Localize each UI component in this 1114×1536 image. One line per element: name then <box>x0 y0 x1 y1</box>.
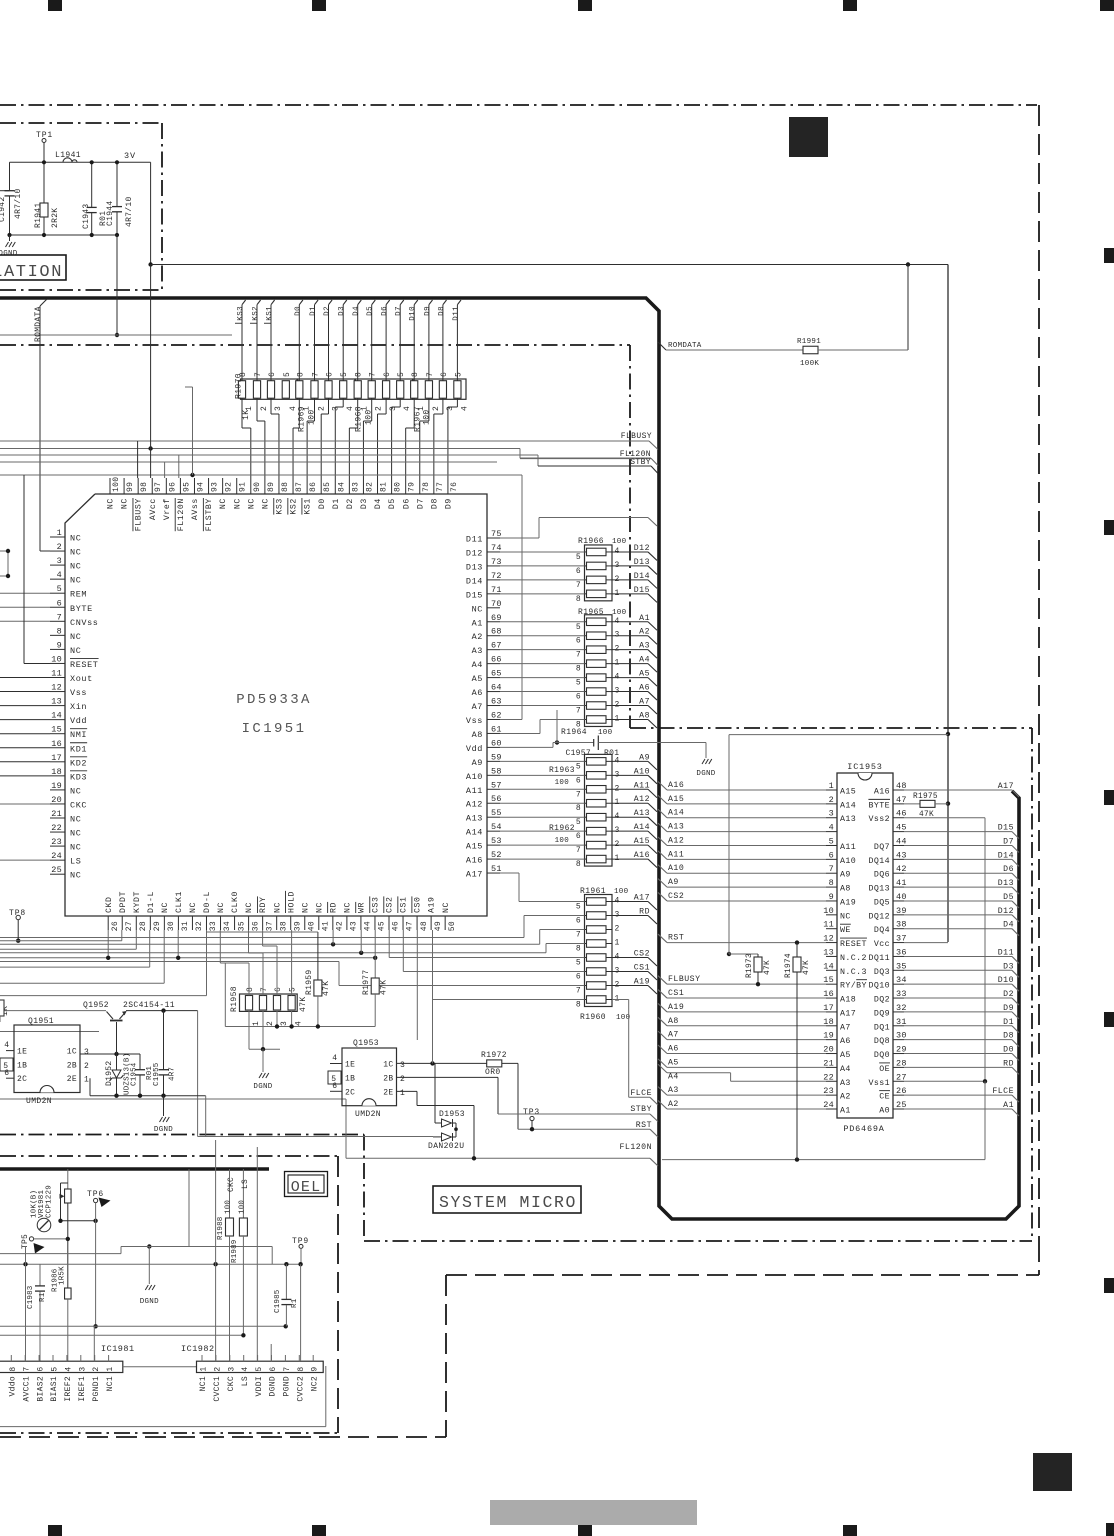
svg-text:A0: A0 <box>879 1107 890 1116</box>
svg-text:A1: A1 <box>472 618 483 628</box>
svg-text:LS: LS <box>70 857 81 867</box>
svg-text:89: 89 <box>267 482 276 492</box>
svg-text:2E: 2E <box>67 1075 77 1084</box>
svg-text:8: 8 <box>57 626 62 636</box>
svg-text:Vdd: Vdd <box>70 716 87 726</box>
svg-text:100: 100 <box>555 837 570 845</box>
svg-text:D3: D3 <box>360 498 369 509</box>
svg-text:2E: 2E <box>383 1088 393 1097</box>
svg-text:1C: 1C <box>383 1061 393 1070</box>
svg-text:5: 5 <box>51 1366 60 1371</box>
svg-text:17: 17 <box>51 753 62 763</box>
svg-text:95: 95 <box>182 482 191 492</box>
svg-text:D0: D0 <box>318 498 327 509</box>
svg-text:DQ6: DQ6 <box>874 871 890 880</box>
svg-text:REM: REM <box>70 590 87 600</box>
svg-text:D4: D4 <box>374 498 383 509</box>
svg-text:6: 6 <box>576 832 581 841</box>
svg-text:2: 2 <box>260 406 269 411</box>
svg-text:23: 23 <box>51 837 62 847</box>
svg-text:6: 6 <box>274 987 283 992</box>
svg-text:CS2: CS2 <box>668 892 684 901</box>
svg-text:D9: D9 <box>445 498 454 509</box>
svg-text:Vcc: Vcc <box>874 940 890 949</box>
svg-text:D0: D0 <box>294 306 302 316</box>
svg-text:2B: 2B <box>383 1074 393 1083</box>
svg-text:22: 22 <box>51 823 62 833</box>
svg-text:A9: A9 <box>639 753 650 762</box>
svg-text:27: 27 <box>125 921 134 931</box>
svg-text:4: 4 <box>829 823 834 833</box>
svg-text:4R7/10: 4R7/10 <box>125 196 134 227</box>
svg-text:42: 42 <box>336 921 345 931</box>
svg-text:D1: D1 <box>1003 1018 1014 1027</box>
svg-text:96: 96 <box>168 482 177 492</box>
svg-text:1: 1 <box>829 781 834 791</box>
svg-text:DQ7: DQ7 <box>874 843 890 852</box>
svg-text:NC: NC <box>840 912 851 921</box>
svg-text:CLK1: CLK1 <box>175 891 184 913</box>
svg-text:7: 7 <box>576 846 581 855</box>
svg-text:D15: D15 <box>466 590 483 600</box>
svg-text:PGND: PGND <box>283 1376 292 1396</box>
svg-text:5: 5 <box>289 987 298 992</box>
svg-text:100: 100 <box>598 729 613 737</box>
svg-text:82: 82 <box>365 482 374 492</box>
svg-text:R1969: R1969 <box>298 406 307 432</box>
svg-text:DQ14: DQ14 <box>868 857 890 866</box>
svg-text:1E: 1E <box>345 1061 355 1070</box>
svg-text:A13: A13 <box>840 815 856 824</box>
svg-text:A14: A14 <box>840 801 856 810</box>
svg-text:CS1: CS1 <box>400 896 409 913</box>
svg-text:RST: RST <box>636 1121 652 1130</box>
svg-text:TP3: TP3 <box>523 1108 540 1117</box>
svg-text:D3: D3 <box>338 306 346 316</box>
svg-text:D9: D9 <box>1003 1004 1014 1013</box>
svg-text:D13: D13 <box>634 558 650 567</box>
svg-text:DAN202U: DAN202U <box>428 1142 464 1151</box>
svg-text:A16: A16 <box>466 856 483 866</box>
svg-text:CS1: CS1 <box>634 964 650 973</box>
svg-text:CKC: CKC <box>70 800 87 810</box>
svg-text:A6: A6 <box>840 1037 851 1046</box>
svg-text:21: 21 <box>51 809 62 819</box>
svg-text:A11: A11 <box>466 786 483 796</box>
svg-text:FLBUSY: FLBUSY <box>668 975 700 984</box>
svg-text:36: 36 <box>251 921 260 931</box>
svg-text:R1960: R1960 <box>580 1013 606 1022</box>
svg-text:5: 5 <box>454 372 463 377</box>
svg-text:D7: D7 <box>416 498 425 509</box>
svg-text:BIAS1: BIAS1 <box>50 1376 59 1402</box>
svg-text:RESET: RESET <box>70 660 99 670</box>
svg-text:A11: A11 <box>668 850 684 859</box>
svg-text:DGND: DGND <box>154 1126 173 1134</box>
svg-text:A4: A4 <box>639 656 650 665</box>
svg-text:N.C.3: N.C.3 <box>840 968 867 977</box>
svg-text:5: 5 <box>57 584 62 594</box>
svg-text:6: 6 <box>576 973 581 982</box>
svg-text:8: 8 <box>411 372 420 377</box>
svg-text:5: 5 <box>576 903 581 912</box>
svg-text:100: 100 <box>365 409 374 425</box>
svg-text:DPDT: DPDT <box>119 891 128 913</box>
svg-text:1K: 1K <box>242 410 251 420</box>
svg-text:4: 4 <box>460 406 469 411</box>
svg-text:NC: NC <box>107 498 116 509</box>
svg-text:UMD2N: UMD2N <box>26 1097 52 1106</box>
svg-text:84: 84 <box>337 482 346 492</box>
svg-text:ROMDATA: ROMDATA <box>34 306 43 342</box>
svg-text:STBY: STBY <box>630 1105 652 1114</box>
svg-text:DGND: DGND <box>0 250 18 258</box>
svg-text:FLCE: FLCE <box>630 1089 652 1098</box>
svg-text:A4: A4 <box>840 1065 851 1074</box>
svg-text:A4: A4 <box>668 1072 679 1081</box>
svg-text:A16: A16 <box>634 851 650 860</box>
svg-text:5: 5 <box>397 372 406 377</box>
svg-text:4R7/10: 4R7/10 <box>14 188 23 219</box>
svg-text:A6: A6 <box>668 1045 679 1054</box>
svg-text:C1943: C1943 <box>82 203 91 229</box>
svg-text:80: 80 <box>394 482 403 492</box>
svg-text:A15: A15 <box>634 837 650 846</box>
svg-text:A12: A12 <box>668 836 684 845</box>
svg-text:A8: A8 <box>472 730 483 740</box>
svg-text:2: 2 <box>829 795 834 805</box>
svg-text:81: 81 <box>380 482 389 492</box>
svg-text:1: 1 <box>615 939 620 948</box>
svg-text:A6: A6 <box>472 688 483 698</box>
svg-text:43: 43 <box>350 921 359 931</box>
svg-text:A13: A13 <box>668 823 684 832</box>
svg-text:13: 13 <box>51 697 62 707</box>
svg-text:2R2K: 2R2K <box>51 208 60 228</box>
svg-text:A1: A1 <box>840 1107 851 1116</box>
svg-text:7: 7 <box>576 987 581 996</box>
svg-text:6: 6 <box>37 1366 46 1371</box>
svg-text:R1975: R1975 <box>913 793 938 801</box>
svg-text:FLSTBY: FLSTBY <box>205 498 214 531</box>
svg-text:D11: D11 <box>998 948 1014 957</box>
svg-text:A9: A9 <box>472 758 483 768</box>
svg-text:Vss: Vss <box>70 688 87 698</box>
svg-text:R1973: R1973 <box>746 953 754 978</box>
svg-text:3: 3 <box>280 1021 289 1026</box>
svg-text:14: 14 <box>823 961 834 971</box>
svg-text:A16: A16 <box>668 781 684 790</box>
svg-text:A3: A3 <box>639 642 650 651</box>
svg-text:100: 100 <box>238 1200 246 1214</box>
svg-text:85: 85 <box>323 482 332 492</box>
svg-text:NC: NC <box>343 902 352 913</box>
svg-text:A15: A15 <box>466 842 483 852</box>
svg-text:A15: A15 <box>668 795 684 804</box>
svg-text:88: 88 <box>281 482 290 492</box>
svg-text:D3: D3 <box>1003 962 1014 971</box>
svg-text:VDDI: VDDI <box>255 1376 264 1396</box>
svg-text:Vss1: Vss1 <box>868 1079 890 1088</box>
svg-text:R1972: R1972 <box>481 1051 507 1060</box>
svg-text:NC1: NC1 <box>106 1376 115 1391</box>
svg-text:6: 6 <box>440 372 449 377</box>
svg-text:10: 10 <box>823 906 834 916</box>
svg-text:1: 1 <box>84 1076 90 1085</box>
svg-text:WR: WR <box>358 902 367 913</box>
svg-text:DQ0: DQ0 <box>874 1051 890 1060</box>
svg-text:D6: D6 <box>402 498 411 509</box>
svg-text:A14: A14 <box>668 809 684 818</box>
svg-text:NC: NC <box>70 562 81 572</box>
svg-text:RESET: RESET <box>840 940 867 949</box>
svg-text:R1970: R1970 <box>235 373 244 399</box>
svg-text:6: 6 <box>268 372 277 377</box>
svg-text:IREF1: IREF1 <box>78 1376 87 1402</box>
svg-text:A3: A3 <box>472 646 483 656</box>
svg-text:2: 2 <box>615 925 620 934</box>
svg-text:R1958: R1958 <box>230 986 239 1012</box>
svg-text:TP8: TP8 <box>9 909 26 918</box>
svg-text:A14: A14 <box>634 823 650 832</box>
svg-text:R1988: R1988 <box>217 1216 225 1240</box>
svg-text:2: 2 <box>84 1062 90 1071</box>
svg-text:D1953: D1953 <box>439 1110 465 1119</box>
svg-text:DQ2: DQ2 <box>874 996 890 1005</box>
svg-text:7: 7 <box>829 864 834 874</box>
svg-text:98: 98 <box>140 482 149 492</box>
svg-text:L1941: L1941 <box>55 151 81 160</box>
svg-text:DQ5: DQ5 <box>874 898 890 907</box>
svg-text:15: 15 <box>51 725 62 735</box>
svg-text:AVss: AVss <box>191 498 200 520</box>
svg-text:A9: A9 <box>840 871 851 880</box>
svg-text:Vss: Vss <box>466 716 483 726</box>
svg-text:31: 31 <box>181 921 190 931</box>
svg-text:CS3: CS3 <box>372 896 381 913</box>
svg-text:DQ3: DQ3 <box>874 968 890 977</box>
svg-text:D8: D8 <box>430 498 439 509</box>
svg-text:D0-L: D0-L <box>203 891 212 913</box>
svg-text:A8: A8 <box>668 1017 679 1026</box>
svg-text:9: 9 <box>57 640 62 650</box>
svg-text:KD2: KD2 <box>70 758 87 768</box>
svg-text:2C: 2C <box>17 1075 27 1084</box>
svg-text:2: 2 <box>375 406 384 411</box>
svg-text:6: 6 <box>383 372 392 377</box>
svg-text:D7: D7 <box>395 306 403 316</box>
svg-text:A3: A3 <box>840 1079 851 1088</box>
svg-text:4R7: 4R7 <box>169 1067 177 1081</box>
svg-text:CS1: CS1 <box>668 989 684 998</box>
svg-text:DQ4: DQ4 <box>874 926 890 935</box>
svg-text:PD5933A: PD5933A <box>236 692 312 708</box>
svg-text:A1: A1 <box>639 614 650 623</box>
svg-text:7: 7 <box>576 931 581 940</box>
svg-text:D10: D10 <box>409 306 417 321</box>
svg-text:OE: OE <box>879 1065 890 1074</box>
svg-text:7: 7 <box>254 372 263 377</box>
svg-text:RDY: RDY <box>259 896 268 913</box>
svg-text:DQ8: DQ8 <box>874 1037 890 1046</box>
svg-text:5: 5 <box>3 1062 9 1071</box>
svg-text:100: 100 <box>555 779 570 787</box>
svg-text:3: 3 <box>78 1366 87 1371</box>
svg-text:R1974: R1974 <box>785 953 793 978</box>
svg-text:D1: D1 <box>310 306 318 316</box>
svg-text:KS2: KS2 <box>252 306 260 321</box>
svg-text:79: 79 <box>408 482 417 492</box>
svg-text:2: 2 <box>213 1366 222 1371</box>
svg-text:NC2: NC2 <box>310 1376 319 1391</box>
svg-text:100K: 100K <box>800 360 819 368</box>
svg-text:93: 93 <box>211 482 220 492</box>
svg-text:CKC: CKC <box>227 1376 236 1391</box>
svg-text:FLBUSY: FLBUSY <box>135 498 144 531</box>
svg-text:47K: 47K <box>803 960 811 975</box>
svg-text:11: 11 <box>51 669 62 679</box>
svg-text:R1: R1 <box>39 1292 47 1302</box>
svg-text:92: 92 <box>225 482 234 492</box>
svg-text:R1965: R1965 <box>578 608 604 617</box>
svg-text:PD6469A: PD6469A <box>843 1124 884 1134</box>
svg-text:A19: A19 <box>668 1003 684 1012</box>
svg-text:4: 4 <box>289 406 298 411</box>
svg-text:100: 100 <box>614 888 629 896</box>
svg-text:NC: NC <box>70 871 81 881</box>
svg-text:26: 26 <box>111 921 120 931</box>
svg-text:IC1951: IC1951 <box>242 721 307 737</box>
svg-text:2: 2 <box>57 542 62 552</box>
svg-text:100: 100 <box>423 409 432 425</box>
svg-text:9: 9 <box>311 1366 320 1371</box>
svg-text:STBY: STBY <box>630 458 651 467</box>
svg-text:NC: NC <box>70 548 81 558</box>
svg-text:R1966: R1966 <box>578 537 604 546</box>
svg-text:25: 25 <box>51 865 62 875</box>
svg-text:100: 100 <box>112 477 121 492</box>
svg-text:NC: NC <box>70 646 81 656</box>
svg-text:97: 97 <box>154 482 163 492</box>
svg-text:32: 32 <box>195 921 204 931</box>
svg-text:40: 40 <box>307 921 316 931</box>
svg-text:BYTE: BYTE <box>70 604 93 614</box>
svg-text:D7: D7 <box>1003 837 1014 846</box>
svg-text:8: 8 <box>576 665 581 674</box>
svg-text:2: 2 <box>432 406 441 411</box>
svg-text:NC: NC <box>219 498 228 509</box>
svg-text:8: 8 <box>576 595 581 604</box>
svg-text:1E: 1E <box>17 1048 27 1057</box>
svg-text:90: 90 <box>253 482 262 492</box>
svg-text:D5: D5 <box>367 306 375 316</box>
svg-text:7: 7 <box>576 707 581 716</box>
svg-text:A5: A5 <box>840 1051 851 1060</box>
svg-text:100: 100 <box>225 1200 233 1214</box>
svg-text:RD: RD <box>1003 1059 1014 1068</box>
svg-text:41: 41 <box>322 921 331 931</box>
svg-text:D2: D2 <box>324 306 332 316</box>
svg-text:RST: RST <box>668 934 684 943</box>
svg-text:LS: LS <box>242 1179 250 1189</box>
svg-text:NC: NC <box>70 576 81 586</box>
svg-text:4: 4 <box>4 1041 10 1050</box>
svg-text:83: 83 <box>351 482 360 492</box>
svg-text:1: 1 <box>400 1089 406 1098</box>
svg-text:6: 6 <box>576 776 581 785</box>
svg-text:Vss2: Vss2 <box>868 815 890 824</box>
svg-text:NC: NC <box>121 498 130 509</box>
svg-text:8: 8 <box>576 1001 581 1010</box>
svg-text:DQ13: DQ13 <box>868 885 890 894</box>
svg-text:D11: D11 <box>452 306 460 321</box>
svg-text:KS1: KS1 <box>266 306 274 321</box>
svg-text:DGND: DGND <box>696 770 715 778</box>
svg-text:CNVss: CNVss <box>70 618 99 628</box>
svg-text:IC1981: IC1981 <box>101 1344 135 1354</box>
svg-text:KD3: KD3 <box>70 772 87 782</box>
svg-text:7: 7 <box>369 372 378 377</box>
svg-text:D8: D8 <box>1003 1032 1014 1041</box>
svg-text:NC: NC <box>301 902 310 913</box>
svg-text:C1957: C1957 <box>565 749 591 758</box>
svg-text:IC1982: IC1982 <box>181 1344 215 1354</box>
svg-text:D5: D5 <box>388 498 397 509</box>
svg-text:FLBUSY: FLBUSY <box>621 432 652 441</box>
svg-text:3: 3 <box>227 1366 236 1371</box>
svg-text:18: 18 <box>51 767 62 777</box>
svg-text:A18: A18 <box>840 996 856 1005</box>
svg-text:8: 8 <box>9 1366 18 1371</box>
svg-text:5: 5 <box>576 553 581 562</box>
svg-text:NMI: NMI <box>70 730 87 740</box>
svg-text:A14: A14 <box>466 828 483 838</box>
svg-text:5: 5 <box>576 818 581 827</box>
svg-text:5: 5 <box>255 1366 264 1371</box>
svg-text:Q1951: Q1951 <box>28 1017 54 1026</box>
svg-text:3: 3 <box>400 1061 406 1070</box>
svg-text:3V: 3V <box>124 151 136 161</box>
svg-text:R1963: R1963 <box>549 766 575 775</box>
svg-text:A10: A10 <box>634 767 650 776</box>
svg-text:D6: D6 <box>381 306 389 316</box>
svg-text:NC: NC <box>217 902 226 913</box>
svg-text:2: 2 <box>92 1366 101 1371</box>
svg-text:IC1953: IC1953 <box>847 762 882 772</box>
svg-text:A1: A1 <box>1003 1101 1014 1110</box>
svg-text:D0: D0 <box>1003 1046 1014 1055</box>
svg-text:R1962: R1962 <box>549 824 575 833</box>
svg-text:8: 8 <box>355 372 364 377</box>
svg-text:A11: A11 <box>840 843 856 852</box>
svg-text:6: 6 <box>576 693 581 702</box>
svg-text:35: 35 <box>237 921 246 931</box>
svg-text:R1991: R1991 <box>797 338 821 346</box>
svg-text:UMD2N: UMD2N <box>355 1110 381 1119</box>
svg-text:A17: A17 <box>998 782 1014 791</box>
svg-text:47K: 47K <box>764 960 772 975</box>
svg-text:R1989: R1989 <box>231 1239 239 1263</box>
svg-text:NC: NC <box>273 902 282 913</box>
svg-text:BYTE: BYTE <box>868 801 890 810</box>
svg-text:A10: A10 <box>668 864 684 873</box>
svg-text:CCP1229: CCP1229 <box>46 1185 54 1218</box>
svg-text:2: 2 <box>318 406 327 411</box>
svg-text:A6: A6 <box>639 684 650 693</box>
svg-text:34: 34 <box>223 921 232 931</box>
svg-text:NC: NC <box>70 786 81 796</box>
svg-text:5: 5 <box>829 836 834 846</box>
